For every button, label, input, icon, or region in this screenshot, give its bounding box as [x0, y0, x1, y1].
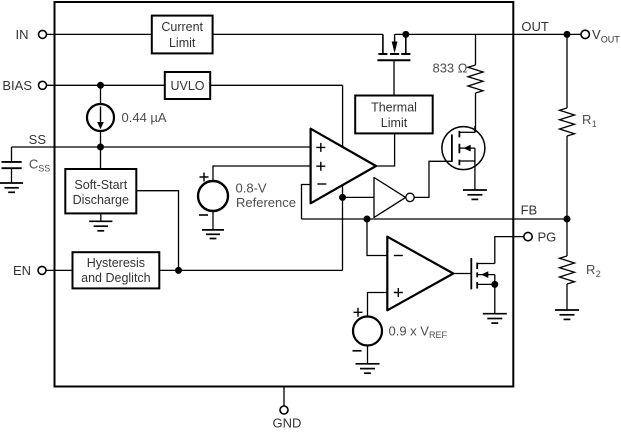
svg-text:0.44 µA: 0.44 µA — [122, 110, 167, 125]
comparator U-pgcomp power good comparator — [387, 237, 453, 311]
svg-text:C: C — [29, 157, 38, 172]
svg-text:0.8-V: 0.8-V — [236, 180, 267, 195]
svg-text:Thermal: Thermal — [371, 101, 417, 115]
transistor Q3 PG open-drain NMOS — [471, 237, 524, 314]
node junction current source / SS line — [97, 144, 104, 151]
transistor Q2 discharge NMOS in circle — [442, 126, 485, 190]
wire comparator output to PG FET gate — [453, 273, 471, 275]
svg-text:Limit: Limit — [169, 36, 196, 50]
svg-text:R: R — [586, 262, 595, 277]
ground under PG FET — [483, 314, 507, 323]
block U-uvlo "UVLO" — [165, 72, 210, 99]
node junction FB / divider — [564, 216, 571, 223]
ground under 0.8-V reference — [202, 230, 224, 239]
ground under discharge NMOS — [463, 190, 487, 199]
block U-hyst "Hysteresis and Deglitch" — [73, 252, 160, 288]
svg-text:Soft-Start: Soft-Start — [74, 178, 127, 192]
svg-text:SS: SS — [29, 132, 47, 147]
pin IN — [16, 27, 47, 42]
resistor R1 — [560, 34, 575, 219]
voltage source V1 0.8-V reference — [198, 166, 311, 230]
wire buffer output to discharge FET gate — [414, 161, 452, 197]
block U-softstart "Soft-Start Discharge" — [65, 169, 136, 213]
node junction soft-start link / EN line — [175, 267, 182, 274]
wire BIAS line from pin through UVLO to drop at error amp — [47, 84, 343, 86]
svg-text:Reference: Reference — [236, 195, 296, 210]
current source I1 0.44 uA — [87, 85, 114, 147]
svg-text:OUT: OUT — [601, 35, 621, 45]
pin BIAS — [2, 78, 46, 93]
label R1 — [582, 112, 597, 129]
ground under R2 — [555, 310, 579, 319]
ground under CSS — [0, 183, 23, 192]
svg-text:0.9 x V: 0.9 x V — [389, 323, 430, 338]
svg-text:R: R — [582, 112, 591, 127]
block U-currentlimit "Current Limit" — [152, 16, 213, 54]
capacitor CSS external soft-start cap — [2, 147, 22, 183]
buffer U-buffer discharge driver with inverting bubble — [374, 178, 414, 218]
node junction FB line / comparator branch — [364, 216, 371, 223]
node junction EN riser / buffer input — [339, 194, 346, 201]
svg-text:SS: SS — [38, 163, 50, 173]
op-amp U-erroramp error amplifier — [311, 129, 376, 204]
wire IN line from pin to pass FET source — [47, 33, 383, 35]
wire UVLO output drop to error amp top edge — [342, 85, 344, 147]
pin PG — [524, 229, 556, 244]
wire SS line from CSS corner to error amp + input — [12, 146, 311, 148]
svg-text:2: 2 — [596, 269, 601, 279]
terminal VOUT — [581, 27, 620, 44]
node junction OUT / R1 — [564, 31, 571, 38]
svg-text:1: 1 — [592, 119, 597, 129]
svg-text:GND: GND — [273, 415, 302, 430]
wire FB line from error amp minus branch to external divider — [302, 218, 568, 220]
svg-text:IN: IN — [16, 27, 29, 42]
node junction PG FET source/body — [491, 281, 498, 288]
svg-text:PG: PG — [538, 229, 557, 244]
wire buffer input — [343, 196, 375, 198]
svg-text:Limit: Limit — [381, 116, 408, 130]
wire FB branch up to error amp minus input — [302, 185, 311, 220]
svg-text:833 Ω: 833 Ω — [432, 61, 467, 76]
voltage source V2 0.9 x VREF — [353, 293, 388, 364]
transistor Q1 pass PMOS — [377, 34, 410, 95]
label R2 — [586, 262, 601, 279]
block U-thermal "Thermal Limit" — [355, 96, 433, 134]
wire EN riser from EN line up to error amp bottom edge — [342, 185, 344, 271]
svg-text:OUT: OUT — [521, 19, 549, 34]
node junction BIAS / current source — [97, 82, 104, 89]
svg-text:and Deglitch: and Deglitch — [81, 271, 151, 285]
svg-text:Discharge: Discharge — [73, 193, 129, 207]
wire Soft-Start Discharge output down to EN line — [136, 191, 178, 271]
resistor R2 — [560, 219, 575, 310]
svg-text:EN: EN — [13, 263, 31, 278]
svg-text:V: V — [592, 27, 601, 42]
wire OUT line from pass FET drain to VOUT terminal — [395, 33, 581, 35]
svg-text:Current: Current — [161, 20, 203, 34]
node junction pass FET body/drain on OUT wire — [402, 31, 409, 38]
wire comparator minus input branch — [367, 219, 387, 256]
ground under Soft-Start Discharge box — [89, 213, 112, 230]
ground under 0.9 x VREF — [356, 364, 380, 373]
svg-text:BIAS: BIAS — [2, 78, 32, 93]
svg-text:REF: REF — [429, 330, 448, 340]
wire EN line from pin through Hysteresis box to riser — [46, 269, 343, 271]
pin GND — [273, 387, 302, 431]
label value 0.9 x VREF — [389, 323, 448, 340]
label CSS — [29, 157, 50, 174]
svg-text:UVLO: UVLO — [170, 79, 204, 93]
wire SS to Soft-Start Discharge box — [100, 147, 102, 169]
label value 0.8-V Reference — [236, 180, 296, 210]
wire error amp output to Thermal Limit bottom — [376, 133, 395, 166]
pin EN — [13, 263, 46, 278]
svg-text:Hysteresis: Hysteresis — [87, 256, 145, 270]
IC block boundary — [55, 2, 514, 387]
svg-text:FB: FB — [521, 202, 538, 217]
resistor R-discharge 833 ohm — [468, 34, 483, 132]
